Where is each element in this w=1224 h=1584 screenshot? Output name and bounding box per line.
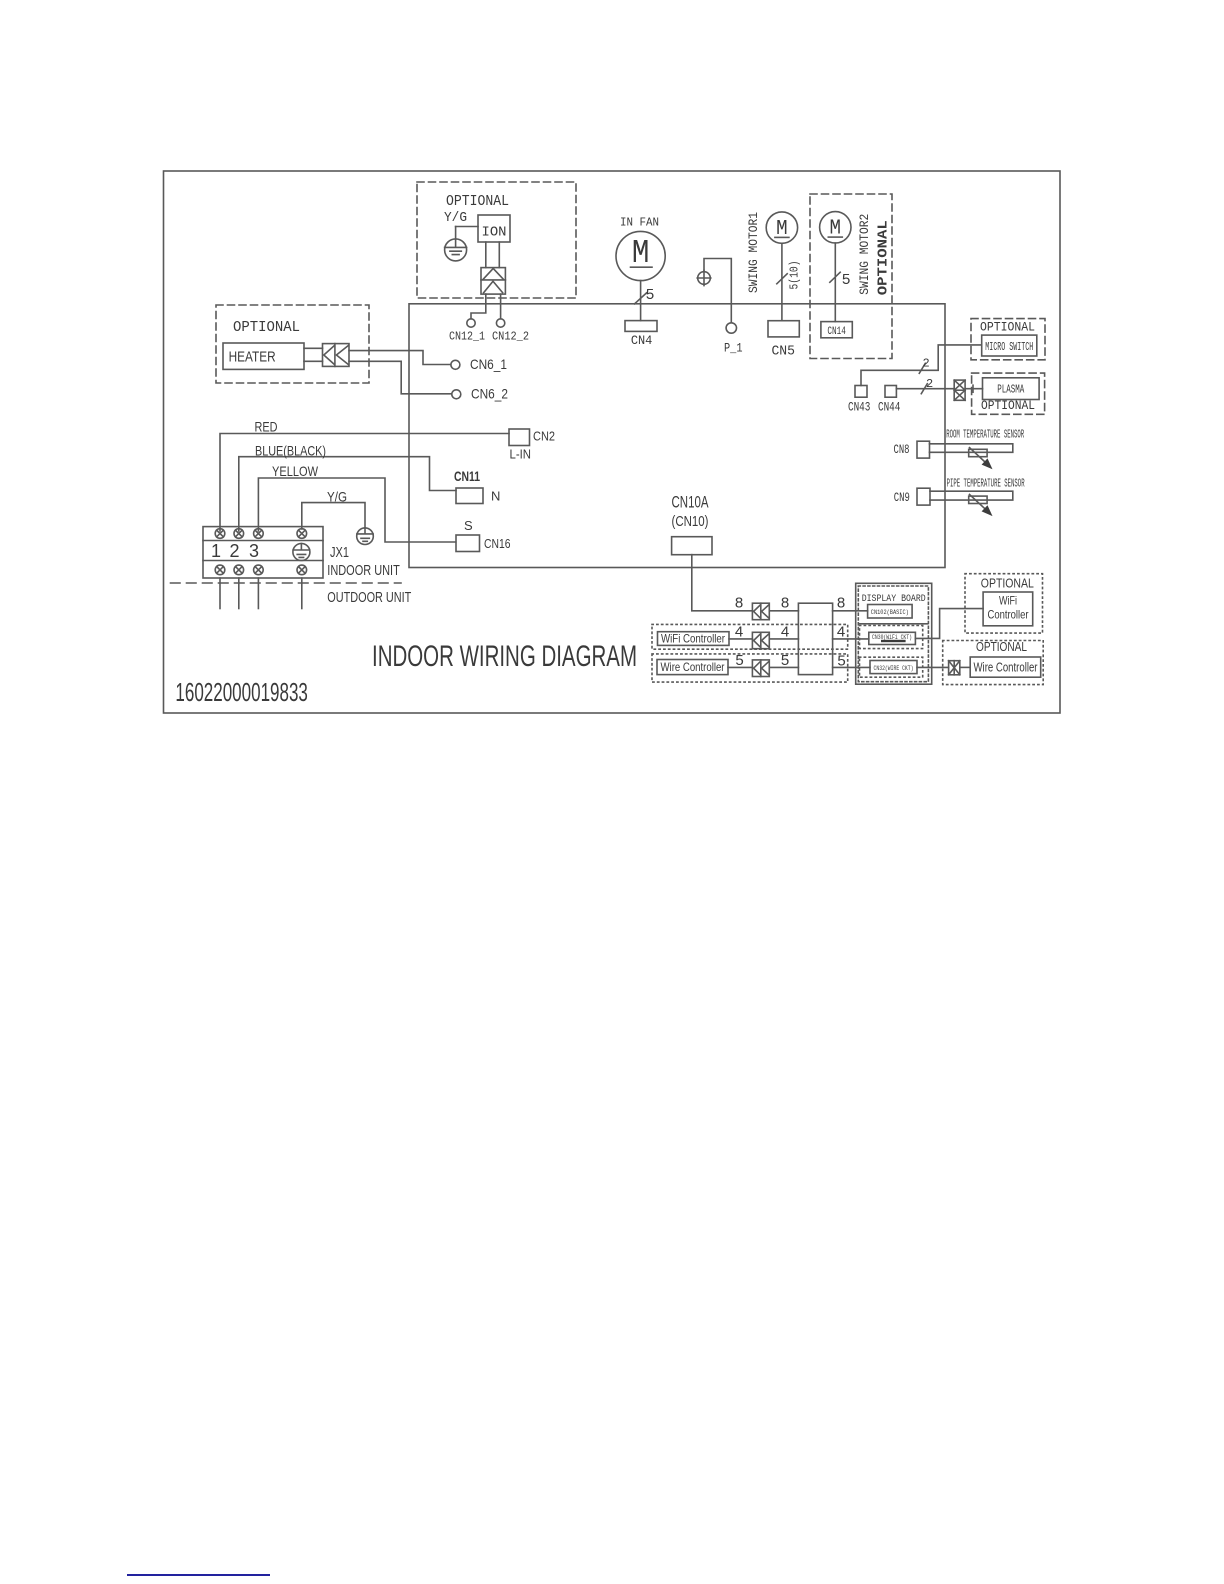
svg-text:2: 2	[923, 357, 930, 371]
connector CN11 (N)	[456, 488, 483, 504]
wire swing motor2 to CN14	[834, 243, 836, 322]
svg-text:4: 4	[837, 624, 845, 641]
dotted box wire row	[652, 654, 848, 682]
wire row 4 to display board	[833, 638, 869, 640]
main PCB box	[409, 304, 945, 568]
svg-text:OPTIONAL: OPTIONAL	[876, 220, 892, 295]
svg-text:5: 5	[842, 272, 851, 289]
connector (ion, stacked pair)	[481, 268, 505, 295]
svg-text:Y/G: Y/G	[444, 210, 467, 226]
svg-text:WiFi: WiFi	[999, 593, 1017, 607]
pin CN6_1	[451, 360, 460, 369]
earth terminal symbol	[293, 544, 310, 561]
plug symbol P_1	[697, 270, 711, 285]
svg-text:2: 2	[229, 541, 239, 561]
swing motor2 optional dashed box	[810, 194, 892, 359]
svg-text:PLASMA: PLASMA	[997, 383, 1024, 397]
display connector CN102 (basic)	[868, 605, 913, 619]
terminal 1 bottom	[215, 565, 225, 575]
plasma optional dashed box	[972, 373, 1045, 414]
svg-text:PIPE TEMPERATURE SENSOR: PIPE TEMPERATURE SENSOR	[947, 478, 1025, 491]
svg-text:CN12_2: CN12_2	[492, 330, 529, 344]
svg-text:Controller: Controller	[988, 607, 1029, 621]
svg-text:8: 8	[735, 595, 743, 612]
svg-text:CN44: CN44	[878, 401, 901, 415]
svg-text:CN11: CN11	[454, 468, 480, 484]
wire CN44 to plasma	[896, 388, 954, 390]
wire wirectrl to connector	[728, 666, 752, 668]
wire connector to CN6_2	[349, 361, 452, 394]
slash 5(10)	[777, 274, 787, 284]
wire ground to ION	[456, 226, 478, 228]
component WiFi Controller (left)	[658, 632, 730, 646]
svg-text:CN30(WiFi CKT): CN30(WiFi CKT)	[872, 634, 912, 641]
wire outdoor 2	[238, 578, 240, 609]
connector CN2	[509, 429, 530, 446]
svg-text:YELLOW: YELLOW	[272, 463, 319, 479]
wire row 4 to junction	[769, 638, 798, 640]
svg-text:5(10): 5(10)	[788, 261, 802, 290]
connector row 8	[752, 603, 769, 620]
connector CN44	[885, 386, 896, 398]
svg-text:2: 2	[926, 377, 933, 391]
slash 2 (plasma wire)	[921, 384, 927, 394]
wire YELLOW	[258, 478, 455, 542]
wire Y/G	[302, 503, 365, 529]
wire RED	[220, 434, 509, 532]
connector (wire controller)	[949, 661, 960, 675]
svg-text:DISPLAY BOARD: DISPLAY BOARD	[862, 593, 926, 605]
svg-text:CN43: CN43	[848, 401, 871, 415]
wire outdoor 1	[219, 578, 221, 609]
component MICRO SWITCH	[982, 335, 1037, 356]
svg-text:ROOM TEMPERATURE SENSOR: ROOM TEMPERATURE SENSOR	[946, 428, 1024, 441]
wire row 5 to junction	[769, 666, 798, 668]
component PLASMA	[983, 378, 1040, 400]
wire row 5 to display board	[833, 666, 870, 668]
terminal 1 top	[215, 529, 225, 539]
dotted box wifi circuit	[860, 626, 923, 649]
wire connector to wire controller box	[960, 666, 970, 668]
component WiFi Controller (right)	[983, 592, 1033, 626]
svg-text:OPTIONAL: OPTIONAL	[980, 320, 1035, 335]
svg-text:INDOOR UNIT: INDOOR UNIT	[327, 562, 400, 579]
connector row 5	[752, 660, 769, 677]
motor SWING MOTOR1	[766, 212, 797, 243]
svg-text:JX1: JX1	[330, 544, 349, 561]
wire row 8 to display board	[833, 610, 868, 612]
wire display to wifi controller	[915, 609, 983, 639]
ION optional dashed box	[417, 182, 576, 298]
svg-text:OPTIONAL: OPTIONAL	[446, 194, 509, 210]
slash 2 (micro switch wire)	[919, 363, 925, 373]
svg-text:SWING MOTOR2: SWING MOTOR2	[858, 214, 872, 295]
junction box	[798, 603, 832, 674]
blue footer line	[127, 1574, 270, 1576]
ground symbol (ion)	[445, 227, 467, 261]
svg-text:HEATER: HEATER	[229, 349, 276, 366]
svg-text:CN9: CN9	[894, 490, 910, 505]
connector (heater, side pair)	[323, 344, 350, 367]
outer border	[164, 171, 1061, 713]
connector row 4	[752, 632, 769, 648]
display board divider	[859, 623, 928, 625]
svg-text:4: 4	[781, 624, 789, 641]
display board outer box	[856, 583, 932, 684]
svg-text:CN14: CN14	[827, 326, 846, 338]
wires ION to connector	[486, 242, 500, 268]
connector CN5	[768, 321, 799, 337]
wire CN43 to micro switch	[861, 345, 982, 386]
svg-text:OUTDOOR UNIT: OUTDOOR UNIT	[327, 589, 411, 606]
display board inner dashed border	[858, 586, 928, 682]
connector CN8	[917, 441, 930, 458]
svg-text:CN10A: CN10A	[672, 493, 709, 512]
wire wifi to connector	[729, 638, 752, 640]
component Wire Controller (left)	[657, 660, 728, 675]
connector CN10A	[672, 537, 712, 555]
svg-text:8: 8	[837, 595, 845, 612]
wire fan to CN4	[640, 281, 642, 321]
wifi circuit dark bar	[881, 640, 906, 642]
component HEATER	[223, 343, 304, 369]
svg-text:Wire Controller: Wire Controller	[974, 661, 1038, 675]
svg-text:L-IN: L-IN	[510, 447, 532, 462]
pin CN12_1	[467, 319, 475, 327]
svg-text:CN2: CN2	[533, 429, 555, 444]
connector CN14	[821, 322, 852, 338]
terminal 3 bottom	[254, 565, 264, 575]
connector CN16	[456, 535, 480, 552]
svg-text:CN12_1: CN12_1	[449, 330, 485, 344]
terminal block JX1	[203, 527, 323, 578]
ground symbol (Y/G)	[357, 528, 374, 545]
slash 5 (swing motor2)	[830, 272, 840, 282]
svg-text:ION: ION	[482, 225, 507, 241]
motor IN FAN	[616, 231, 665, 280]
wire CN10A to row 8	[692, 555, 753, 611]
wire connector to plasma box	[965, 385, 982, 392]
wire connector to CN6_1	[349, 351, 451, 365]
svg-text:CN4: CN4	[631, 333, 653, 348]
wire outdoor 3	[257, 578, 259, 609]
pipe sensor thermistor	[969, 494, 993, 516]
dashed separator indoor/outdoor	[171, 582, 402, 584]
wire controller optional dotted box	[943, 641, 1043, 685]
room sensor thermistor	[969, 448, 993, 470]
svg-text:S: S	[464, 518, 473, 533]
connector CN4	[625, 321, 657, 332]
terminal 2 bottom	[234, 565, 244, 575]
svg-text:(CN10): (CN10)	[672, 513, 709, 530]
dotted box wifi row	[652, 624, 848, 649]
display connector wifi circuit	[869, 632, 916, 644]
wires heater to connector	[304, 348, 323, 361]
wire display to connector (wire ctrl)	[917, 666, 949, 668]
slash 5 (fan)	[635, 293, 647, 304]
wire outdoor 4	[301, 578, 303, 609]
dotted box wire circuit	[860, 657, 923, 677]
svg-text:CN8: CN8	[894, 442, 910, 457]
svg-text:8: 8	[781, 595, 789, 612]
svg-text:CN6_2: CN6_2	[471, 386, 508, 402]
connector CN43	[855, 386, 867, 398]
svg-text:OPTIONAL: OPTIONAL	[981, 398, 1035, 413]
svg-text:MICRO SWITCH: MICRO SWITCH	[985, 340, 1033, 354]
connector (plasma pair)	[954, 380, 965, 400]
svg-text:SWING MOTOR1: SWING MOTOR1	[747, 212, 761, 293]
terminal 3 top	[254, 529, 264, 539]
wire P_1	[704, 259, 731, 323]
wire BLUE(BLACK)	[239, 457, 456, 531]
wire connector to pin CN12_2	[500, 294, 502, 319]
wire connector to pin CN12_1	[471, 294, 486, 319]
component Wire Controller (right)	[970, 657, 1040, 677]
svg-text:CN6_1: CN6_1	[470, 356, 507, 372]
svg-text:3: 3	[249, 541, 259, 561]
svg-text:IN FAN: IN FAN	[620, 216, 659, 230]
svg-text:OPTIONAL: OPTIONAL	[981, 577, 1034, 591]
svg-text:INDOOR WIRING DIAGRAM: INDOOR WIRING DIAGRAM	[372, 640, 637, 673]
wire swing motor1 to CN5	[781, 243, 783, 320]
pin CN6_2	[452, 390, 461, 399]
micro switch optional dashed box	[971, 319, 1045, 360]
svg-text:CN102(BASIC): CN102(BASIC)	[871, 609, 909, 616]
svg-text:OPTIONAL: OPTIONAL	[233, 319, 300, 336]
motor SWING MOTOR2	[820, 212, 851, 243]
svg-text:Wire Controller: Wire Controller	[661, 660, 725, 674]
pipe sensor body	[930, 491, 1013, 500]
connector CN9	[917, 488, 930, 505]
wire row 8 to junction	[769, 610, 798, 612]
svg-text:16022000019833: 16022000019833	[175, 677, 308, 707]
svg-text:Y/G: Y/G	[327, 489, 347, 505]
svg-text:CN32(WIRE CKT): CN32(WIRE CKT)	[874, 665, 914, 672]
terminal 4 bottom	[297, 565, 307, 575]
svg-text:BLUE(BLACK): BLUE(BLACK)	[255, 443, 326, 459]
pin CN12_2	[496, 319, 504, 327]
svg-text:N: N	[491, 489, 500, 504]
wifi optional dotted box	[965, 574, 1043, 633]
pin P_1	[726, 323, 736, 333]
svg-text:CN16: CN16	[484, 536, 511, 551]
svg-text:CN5: CN5	[771, 345, 795, 360]
svg-text:5: 5	[781, 652, 789, 669]
svg-text:5: 5	[735, 652, 743, 669]
heater optional dashed box	[216, 305, 369, 383]
svg-text:P_1: P_1	[724, 341, 743, 356]
svg-text:1: 1	[211, 541, 221, 561]
svg-text:5: 5	[646, 287, 655, 304]
terminal 2 top	[234, 529, 244, 539]
svg-text:RED: RED	[255, 419, 278, 435]
display connector wire circuit	[870, 661, 917, 674]
ION box	[478, 215, 510, 242]
svg-text:OPTIONAL: OPTIONAL	[976, 640, 1027, 654]
svg-text:WiFi Controller: WiFi Controller	[661, 632, 725, 646]
svg-text:4: 4	[735, 624, 743, 641]
terminal 4 top	[297, 529, 307, 539]
room sensor body	[930, 444, 1013, 453]
